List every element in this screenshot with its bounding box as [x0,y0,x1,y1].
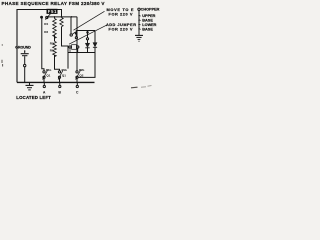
svg-text:F1b: F1b [62,68,68,72]
jumper terminals and block [69,46,71,48]
tick hooks to chopper terminal labels [139,15,141,29]
svg-text:F51: F51 [48,9,57,14]
svg-text:R4: R4 [44,22,48,26]
ground under chopper column [135,34,143,36]
wire: corner down at x=77 [76,17,78,71]
leader line: MOVE TO E [74,11,105,30]
contact 3 (F2b) [76,68,85,82]
E terminal branch [70,17,72,34]
fuse F51 label box [47,9,58,14]
terminal B [59,82,61,85]
svg-text:B: B [58,90,61,94]
scan artifacts [1,60,4,67]
svg-text:PHASE SEQUENCE RELAY FSM 220/3: PHASE SEQUENCE RELAY FSM 220/380 V [2,1,106,6]
svg-text:BASE: BASE [142,19,153,23]
feed wire to contact 1 [42,18,44,71]
svg-text:FOR 220 V: FOR 220 V [109,12,133,17]
svg-text:R3: R3 [44,30,48,34]
wire top horizontal [40,16,77,18]
svg-text:LOCATED LEFT: LOCATED LEFT [16,95,51,100]
svg-text:Q1: Q1 [62,73,66,77]
svg-text:R1: R1 [50,49,54,53]
relay outline box [17,10,62,83]
contact under F51 [41,16,43,18]
contact 1 (F1b) [43,68,52,82]
svg-text:C: C [76,90,79,94]
svg-text:CHOPPER: CHOPPER [141,8,160,12]
long right vertical with diode [78,31,95,78]
stray vertical near contact 2 [67,53,69,69]
lower-left earth ground [29,82,31,85]
svg-text:GROUND: GROUND [15,45,31,49]
svg-text:BASE: BASE [142,27,153,31]
contact 2 (F1b) [58,68,67,82]
svg-text:F1b: F1b [46,68,52,72]
svg-text:Q2: Q2 [79,73,83,77]
svg-text:F2b: F2b [79,68,85,72]
terminal A [43,82,45,85]
resistor chain column A (R4 R3 R2 R1) [55,17,60,71]
svg-text:A: A [43,90,46,94]
chopper terminal column [138,8,140,10]
diode branch at x=87.5 [87,31,89,53]
resistor column B on box right edge [61,10,63,18]
svg-text:Q1: Q1 [46,73,50,77]
ground/cap symbol under label [24,50,25,51]
svg-text:FOR 220 V: FOR 220 V [109,26,133,31]
svg-text:LOWER: LOWER [142,23,156,27]
leader line: ADD JUMPER [69,25,107,44]
node junctions on top wire [54,16,55,17]
bottom bus wire [17,81,95,83]
jumper horizontal wire [68,52,95,54]
terminal C [76,82,78,85]
svg-text:R2: R2 [50,42,54,46]
